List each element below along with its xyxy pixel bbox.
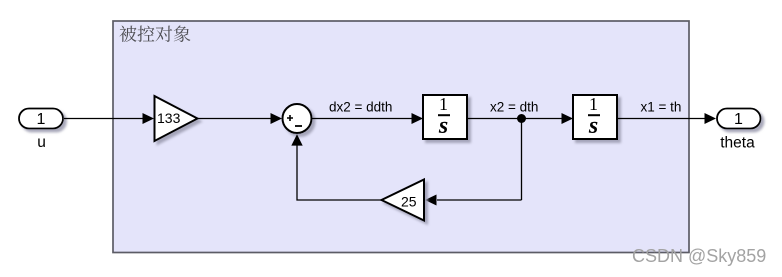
feedback wire down from node [521,119,523,201]
feedback wire node -> gain 25 [437,199,522,201]
area title 被控对象 [120,25,191,42]
svg-text:s: s [438,113,448,139]
svg-text:dx2 = ddth: dx2 = ddth [329,100,392,115]
svg-text:CSDN @Sky859: CSDN @Sky859 [632,246,766,266]
wire integrator1 -> integrator 2, label x2 = dth [467,118,563,120]
integrator 1 (1/s) [423,95,467,139]
subsystem area 被控对象 [113,21,689,253]
gain 133 [155,96,198,141]
svg-text:x1 = th: x1 = th [641,100,682,115]
inport 1 (u) [19,109,63,129]
svg-text:1: 1 [734,111,743,128]
wire sum -> integrator 1, label dx2 = ddth [312,118,413,120]
svg-text:theta: theta [720,135,755,152]
sum junction [283,104,312,133]
svg-text:u: u [37,134,46,151]
svg-text:1: 1 [589,94,598,114]
integrator 2 (1/s) [573,95,617,139]
plus sign [287,115,293,121]
feedback wire gain 25 -> sum (left then up) [297,144,382,200]
branch node dot [517,114,526,123]
svg-text:25: 25 [401,194,417,210]
svg-text:s: s [588,113,598,139]
minus sign [295,125,302,127]
wire gain -> sum [198,118,272,120]
wire u -> gain 133 [64,118,144,120]
outport 1 (theta) [717,109,761,129]
svg-text:1: 1 [439,94,448,114]
svg-text:x2 = dth: x2 = dth [490,100,538,115]
svg-text:1: 1 [37,111,46,128]
wire integrator2 -> outport, label x1 = th [617,118,706,120]
svg-text:133: 133 [157,110,181,126]
gain 25 (points left) [382,180,425,221]
